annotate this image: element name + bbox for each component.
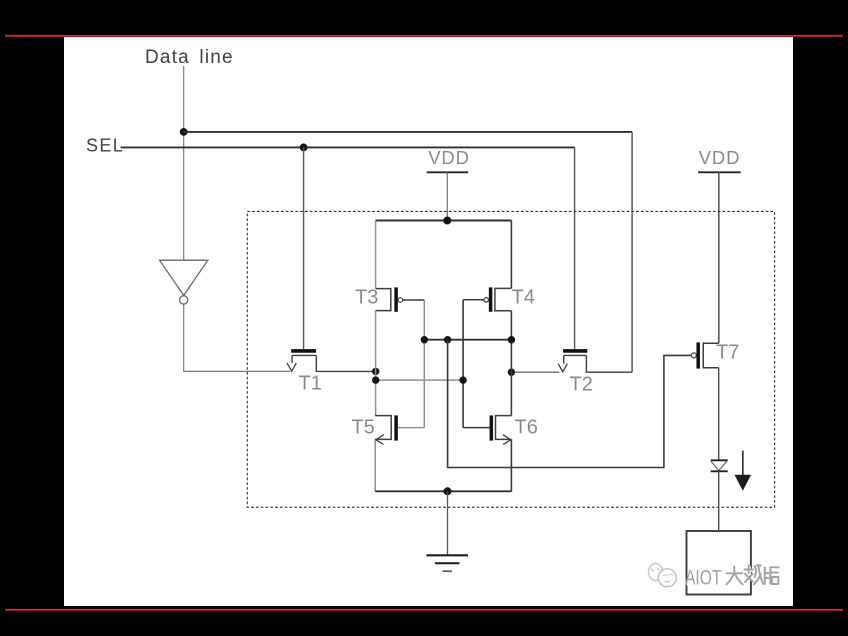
wire SEL vertical to T2 gate (574, 147, 576, 349)
svg-text:Data line: Data line (145, 47, 234, 68)
node junction T1 / latch left (372, 368, 379, 375)
wire diode to box (718, 471, 720, 531)
wire T1 gate vertical (303, 147, 305, 349)
svg-text:T4: T4 (512, 287, 535, 309)
wire Qbar to T7 gate route (448, 340, 692, 468)
watermark logo (649, 564, 677, 587)
ground symbol (426, 555, 468, 571)
wire cross coupling line 1 (424, 339, 511, 341)
light emission arrow (735, 451, 752, 491)
wire SEL horizontal (121, 146, 575, 148)
wire VDD left vertical (446, 172, 448, 220)
svg-text:T1: T1 (299, 373, 322, 395)
node junction T2 / latch right (508, 369, 515, 376)
svg-text:VDD: VDD (428, 147, 469, 168)
transistor T4 (PMOS) (463, 287, 511, 311)
node junction left node / line2 (372, 376, 379, 383)
wire ground vertical (447, 491, 449, 555)
wire data line vertical upper (183, 66, 185, 260)
transistor T3 (PMOS) (376, 287, 425, 311)
wire vertical x632 down to T2 drain (631, 132, 633, 372)
node junction A / line1 (421, 336, 428, 343)
wire latch right node to T2 source (511, 371, 559, 373)
node junction VDD / top rail (443, 217, 451, 225)
transistor T6 (NMOS) (463, 415, 511, 444)
node junction line1 / T7 route (444, 336, 451, 343)
transistor T7 (PMOS drive) (691, 342, 718, 368)
watermark text CJK (drawn strokes, embossed) (728, 567, 780, 586)
svg-text:T7: T7 (716, 342, 739, 364)
transistor T5 (NMOS) (375, 415, 424, 444)
svg-text:T6: T6 (515, 417, 538, 439)
power VDD bar right (698, 171, 741, 173)
inverter U1 (160, 260, 208, 304)
wire inverter output to T1 source (184, 304, 291, 371)
box (load block) (687, 531, 751, 595)
svg-text:SEL: SEL (86, 136, 124, 156)
wire data tap horizontal to T2 drain (184, 131, 632, 133)
wire latch right vertical (510, 221, 512, 492)
node junction line1 / right node (508, 336, 515, 343)
node junction ground tap (444, 487, 452, 495)
svg-text:T3: T3 (355, 287, 378, 309)
wire VDD right vertical to T7 (718, 172, 720, 343)
wire latch top rail (376, 220, 512, 222)
svg-text:T2: T2 (570, 374, 593, 396)
wire latch input A vertical (T3/T5 gates) (423, 300, 425, 428)
wire latch left vertical (374, 221, 376, 492)
node junction data tap (180, 128, 188, 136)
wire latch input B vertical (T4/T6 gates) (462, 300, 464, 428)
wire latch bottom rail (375, 490, 511, 492)
power VDD bar left (427, 171, 469, 173)
svg-text:AIOT: AIOT (685, 566, 722, 589)
svg-text:VDD: VDD (699, 147, 740, 168)
svg-text:T5: T5 (352, 417, 375, 439)
wire cross coupling line 2 (376, 379, 463, 381)
node junction line2 / input B (459, 376, 466, 383)
transistor T2 (NMOS pass) (558, 351, 632, 372)
wire T7 drain to diode (718, 368, 720, 460)
diode D1 (OLED) (711, 460, 728, 471)
node junction SEL / T1 gate (300, 144, 308, 152)
dashed cell boundary box (247, 211, 774, 507)
transistor T1 (NMOS pass) (287, 351, 376, 372)
